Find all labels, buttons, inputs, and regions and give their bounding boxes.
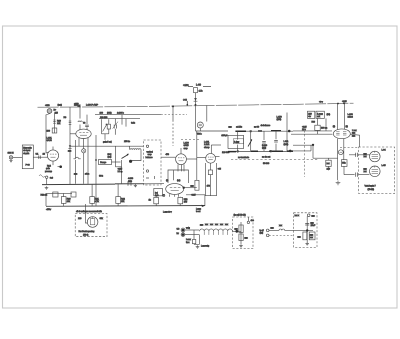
capacitor C12 pair ticks bbox=[128, 181, 131, 185]
wire V2 left pin drop bbox=[75, 140, 77, 184]
label F1 bbox=[54, 109, 57, 112]
wire V2 cathode pins bbox=[79, 138, 88, 184]
wire jack to attenuator bbox=[13, 156, 23, 158]
label bus right b bbox=[196, 210, 201, 213]
tap ring a bbox=[237, 151, 239, 153]
terminal T6.3b bbox=[182, 233, 185, 236]
svg-text:(cal): (cal) bbox=[108, 156, 112, 159]
svg-text:25uF: 25uF bbox=[311, 224, 316, 227]
switch contact b bbox=[146, 170, 148, 172]
svg-text:gain 5 adj: gain 5 adj bbox=[103, 141, 112, 144]
svg-text:220 pf: 220 pf bbox=[222, 134, 228, 137]
svg-text:Vert Ampls 7: Vert Ampls 7 bbox=[365, 185, 377, 188]
label R21v bbox=[95, 200, 100, 203]
svg-text:Range: Range bbox=[100, 161, 107, 164]
wire choke out bbox=[232, 230, 241, 232]
svg-text:all dc voltages measured with: all dc voltages measured with bbox=[76, 210, 103, 213]
wire V2 screen feed bbox=[79, 107, 81, 119]
svg-text:vertical: vertical bbox=[147, 151, 154, 154]
capacitor C95 bbox=[305, 223, 309, 225]
svg-text:L-101: L-101 bbox=[47, 137, 53, 140]
label box line2 bbox=[148, 153, 153, 156]
wire supply vertical bbox=[306, 216, 308, 243]
wire pot network bbox=[102, 119, 109, 140]
resistor R90 bbox=[341, 160, 347, 167]
label hump6 bbox=[225, 223, 229, 226]
wire V3 plate lead bbox=[180, 148, 182, 154]
V6 inner bbox=[199, 124, 202, 126]
svg-text:(x): (x) bbox=[346, 125, 349, 128]
dashed box heater filter bbox=[233, 217, 254, 249]
label crt caption1 bbox=[365, 185, 377, 188]
wire x173 drop dashed bbox=[172, 120, 174, 146]
label above gbus b bbox=[85, 173, 90, 176]
resistor R99 bbox=[309, 232, 315, 240]
wire section3 vertical bbox=[250, 131, 252, 151]
wire screen divider drop x70 bbox=[69, 107, 71, 148]
svg-text:select: select bbox=[348, 116, 354, 119]
wire CR2 to ground bbox=[69, 149, 71, 185]
label C12v2 bbox=[128, 180, 133, 183]
node top rail out bbox=[288, 130, 291, 133]
svg-text:Max volts: Max volts bbox=[23, 147, 32, 150]
wire attenuator to V1 grid bbox=[33, 156, 47, 158]
node bus junction x173 bbox=[172, 105, 174, 107]
label V8 pin r bbox=[346, 125, 349, 128]
label chain note bbox=[201, 245, 210, 248]
label R21 bbox=[95, 198, 100, 201]
wire x313 drop bbox=[312, 145, 314, 158]
svg-text:R18 2k: R18 2k bbox=[41, 193, 48, 196]
node x313 junction bbox=[312, 144, 314, 146]
svg-text:100 on: 100 on bbox=[321, 126, 328, 129]
resistor R98 bbox=[303, 232, 307, 240]
triode V5 (geometry) bbox=[87, 217, 98, 228]
label L011b bbox=[284, 143, 289, 146]
label above rail b bbox=[254, 125, 260, 128]
resistor R1 ticks bbox=[53, 120, 56, 123]
svg-text:at gain: at gain bbox=[23, 152, 30, 155]
label P2 bbox=[382, 164, 387, 167]
svg-text:P+G: P+G bbox=[26, 164, 31, 167]
wire section4 vertical bbox=[263, 131, 265, 151]
svg-text:2.2k/1: 2.2k/1 bbox=[204, 143, 210, 146]
label pot bbox=[108, 153, 113, 156]
svg-text:to all: to all bbox=[260, 229, 265, 232]
svg-text:L-104 P-AMP: L-104 P-AMP bbox=[86, 103, 99, 106]
wire V6 bottom pin bbox=[199, 128, 201, 131]
wire heater line a bbox=[185, 229, 199, 231]
wire V8 screen drop bbox=[343, 139, 345, 160]
label P1 left1 bbox=[364, 153, 368, 156]
label hump3 bbox=[210, 223, 214, 226]
wire dashed link top of crt box bbox=[340, 147, 358, 149]
wire to TP1 bbox=[58, 166, 60, 168]
inductor segments top rail bbox=[235, 130, 281, 133]
wire cathode return bbox=[46, 192, 72, 194]
label 6.3v b bbox=[177, 232, 180, 235]
label R82v bbox=[317, 112, 323, 115]
tap ring c bbox=[270, 150, 272, 152]
wire ring up bbox=[247, 217, 249, 221]
label y118 rail a bbox=[100, 116, 108, 119]
label below c71 bbox=[262, 144, 268, 147]
wire rail drops x122 x126 bbox=[122, 115, 126, 127]
node bus junction J2 bbox=[187, 104, 189, 106]
label INPUT bbox=[8, 152, 14, 155]
wire x96 drop upper bbox=[95, 135, 97, 160]
resistor R83 bbox=[315, 125, 320, 130]
neon lamp B1 (circled X) bbox=[82, 149, 86, 153]
label R10v bbox=[57, 122, 61, 125]
capacitor C91 bbox=[356, 173, 358, 177]
label box line3 bbox=[146, 156, 154, 159]
label delay1 bbox=[234, 140, 240, 143]
svg-text:(39k): (39k) bbox=[107, 112, 112, 115]
wire bus drop x207 bbox=[206, 105, 208, 121]
svg-text:L-130: L-130 bbox=[184, 142, 190, 145]
label R82w bbox=[317, 115, 321, 118]
label R51v bbox=[149, 199, 152, 202]
label T1 text bbox=[155, 192, 158, 195]
wire x173 drop solid bbox=[172, 106, 174, 120]
svg-text:(2.2): (2.2) bbox=[262, 147, 266, 150]
wire h1 right bbox=[269, 229, 279, 231]
capacitor C2 bbox=[39, 156, 41, 159]
label R96v bbox=[235, 227, 239, 230]
wire V8 cathode drop bbox=[337, 139, 339, 180]
capacitor C7 variable bbox=[113, 122, 118, 129]
wire dashed link bbox=[181, 139, 200, 141]
triode V6 (cf) bbox=[197, 122, 203, 128]
wire filter vertical bbox=[240, 222, 242, 244]
svg-text:L xxx dc v: L xxx dc v bbox=[163, 211, 173, 214]
arrowhead bus end bbox=[202, 205, 205, 207]
resistor R97 bbox=[239, 234, 243, 241]
label R45v bbox=[166, 153, 170, 156]
label above rail a bbox=[236, 126, 243, 129]
wire mid out to V8 bbox=[291, 133, 333, 135]
wire C90 link bbox=[349, 154, 370, 156]
node bottom rail out bbox=[289, 150, 292, 153]
wire bus drop to V6 net bbox=[195, 105, 197, 131]
label wdg bbox=[186, 227, 191, 230]
label V7 type bbox=[204, 143, 210, 146]
label below rail3 bbox=[263, 162, 270, 165]
label +100V net bbox=[183, 84, 189, 87]
label V5 right bbox=[100, 217, 104, 220]
capacitor C90 bbox=[356, 153, 358, 157]
svg-text:(xxx): (xxx) bbox=[58, 104, 63, 107]
dashed box CRT connector bbox=[359, 147, 395, 194]
label R20 bbox=[67, 198, 72, 201]
wire R20 leads bbox=[63, 193, 65, 206]
svg-text:4 100: 4 100 bbox=[128, 177, 134, 180]
dashed box geometry module bbox=[75, 214, 107, 237]
wire heater return bbox=[194, 235, 200, 245]
triode V7 (delay driver) bbox=[206, 153, 216, 163]
label R22v bbox=[121, 200, 125, 203]
label +225 tap bbox=[118, 168, 123, 171]
label V5 left bbox=[78, 217, 82, 220]
label R83t bbox=[312, 121, 316, 124]
wire node B+ stub bbox=[188, 86, 211, 88]
resistor R18 box bbox=[53, 192, 58, 197]
svg-text:L-xx wdg: L-xx wdg bbox=[201, 245, 210, 248]
label R81w bbox=[308, 115, 311, 118]
label R32 bbox=[131, 122, 136, 125]
terminal ring T6.3b bbox=[181, 233, 185, 237]
label cal bbox=[108, 156, 112, 159]
label C2v bbox=[36, 153, 40, 156]
wire L5 to switch bbox=[132, 150, 141, 161]
label box caption2 bbox=[83, 234, 89, 237]
dashed box decoupling supply bbox=[294, 213, 317, 248]
svg-text:(30): (30) bbox=[327, 113, 331, 116]
label hump4 bbox=[215, 223, 219, 226]
wire bus hook right bbox=[186, 195, 205, 206]
label s1 bbox=[312, 214, 316, 217]
squiggle cal mark bbox=[39, 175, 45, 177]
ground V8 cathode bbox=[336, 181, 341, 185]
svg-text:(x): (x) bbox=[333, 125, 336, 128]
wire box contacts c bbox=[146, 176, 155, 179]
label +350 bbox=[74, 102, 79, 105]
label L2v bbox=[83, 122, 86, 125]
heater choke L20 humps bbox=[200, 229, 233, 231]
terminal T6.3a bbox=[182, 229, 185, 232]
label R14 bbox=[47, 165, 52, 168]
wire V8 plate to crt box bbox=[350, 134, 359, 147]
svg-text:no dc out: no dc out bbox=[262, 156, 271, 159]
svg-text:Hor Back opening: Hor Back opening bbox=[79, 230, 96, 233]
label R52v bbox=[184, 201, 188, 204]
label near CR2 bbox=[68, 150, 72, 153]
label V1 type bbox=[47, 139, 53, 142]
output pentode V8 (L-160) bbox=[333, 129, 350, 139]
svg-text:dc balance: dc balance bbox=[261, 124, 271, 127]
label -8.6V bbox=[50, 176, 54, 179]
label -150V bbox=[46, 208, 52, 211]
wire tick at +dc bbox=[186, 101, 188, 105]
label sec1 bbox=[222, 134, 228, 137]
label R62v bbox=[207, 185, 211, 188]
wire section2 vertical bbox=[237, 131, 239, 151]
label term b bbox=[260, 232, 264, 235]
wire x196.8 drop bbox=[196, 131, 198, 180]
label R97v bbox=[245, 236, 249, 239]
switch arm SW1 bbox=[122, 154, 129, 159]
ground heater bbox=[196, 245, 200, 248]
label adj bbox=[78, 104, 81, 107]
diode CR40 bbox=[194, 98, 198, 101]
label R22 bbox=[121, 198, 126, 201]
label box line1 bbox=[147, 151, 154, 154]
svg-text:no terminate: no terminate bbox=[238, 156, 250, 159]
resistor R11 bbox=[52, 128, 57, 133]
capacitor C18 box bbox=[71, 192, 76, 197]
svg-text:56 640: 56 640 bbox=[263, 162, 270, 165]
capacitor C71 bbox=[236, 141, 240, 142]
svg-text:to crt: to crt bbox=[196, 210, 201, 213]
P2 inner bars bbox=[372, 166, 378, 173]
wire fuse to grid drop bbox=[46, 114, 50, 116]
wire R40 to bus bbox=[195, 93, 197, 105]
label preamp bbox=[45, 170, 53, 173]
label V7 role bbox=[204, 146, 210, 149]
wire drop into geometry box bbox=[86, 204, 88, 223]
wire delay top rail bbox=[244, 130, 293, 132]
tick stubs between humps bbox=[204, 231, 228, 235]
ground at input jack bbox=[9, 159, 12, 162]
ground filter bbox=[239, 244, 243, 247]
label R11v bbox=[47, 130, 51, 133]
wire V1 plate feed bbox=[54, 114, 56, 134]
label V8 right1 bbox=[352, 129, 358, 132]
label hump1 bbox=[200, 223, 204, 226]
label V8 pin bbox=[327, 113, 331, 116]
svg-text:htr: htr bbox=[177, 232, 180, 235]
terminal out ring bbox=[247, 221, 249, 223]
label above rail d bbox=[277, 118, 282, 121]
label heater b bbox=[186, 241, 190, 244]
svg-text:5 600: 5 600 bbox=[262, 144, 268, 147]
label range text bbox=[100, 161, 107, 164]
svg-text:(xx): (xx) bbox=[177, 179, 181, 182]
svg-text:(x): (x) bbox=[166, 179, 169, 182]
potentiometer arrow bbox=[103, 124, 108, 132]
label P1 bbox=[382, 149, 387, 152]
label V7 name bbox=[204, 141, 210, 144]
wire C7 leads bbox=[114, 119, 116, 135]
label P2 left2 bbox=[364, 170, 368, 173]
svg-text:clamp: clamp bbox=[204, 146, 210, 149]
switch contact a bbox=[146, 145, 148, 147]
wire delay section1 sides bbox=[228, 135, 244, 148]
label F1b bbox=[55, 111, 59, 114]
node bus x338 bbox=[337, 103, 339, 105]
label hump2 bbox=[205, 223, 209, 226]
wire R18 to bus bbox=[45, 193, 47, 206]
bias box T1 bbox=[154, 189, 163, 196]
node supply junction bbox=[306, 229, 308, 231]
ground bus bbox=[42, 183, 115, 186]
wire V1 grid drop bbox=[46, 115, 49, 153]
wire R51 leads bbox=[155, 196, 157, 206]
label R10 bbox=[57, 120, 62, 123]
wire R83 leads bbox=[317, 118, 319, 134]
svg-text:L-160: L-160 bbox=[348, 113, 354, 116]
wire to V7 grid bbox=[197, 157, 206, 159]
wire mid ground link y183.6 bbox=[115, 183, 144, 185]
resistor R52 bbox=[178, 197, 183, 203]
wire V2 plate feed bbox=[86, 115, 88, 124]
svg-text:(250): (250) bbox=[277, 118, 282, 121]
svg-text:(7): (7) bbox=[163, 194, 166, 197]
svg-text:L-131: L-131 bbox=[204, 141, 210, 144]
wire dashed enclosure edge bbox=[304, 131, 306, 177]
wire +225V top bus bbox=[38, 103, 354, 107]
label below bus c bbox=[163, 211, 173, 214]
resistor R20 bbox=[61, 197, 66, 204]
svg-text:220 100: 220 100 bbox=[100, 116, 108, 119]
svg-text:balance: balance bbox=[146, 156, 154, 159]
resistor R33 bbox=[107, 124, 110, 129]
svg-text:(75-6): (75-6) bbox=[83, 234, 89, 237]
resistor R51 bbox=[154, 197, 159, 203]
label L011 bbox=[284, 140, 290, 143]
label V8 right3 bbox=[352, 134, 356, 137]
V5 inner grid bbox=[90, 217, 94, 225]
label A1 line3 bbox=[23, 152, 30, 155]
double triode V4 (output cf) bbox=[166, 184, 184, 195]
ground below bus bbox=[45, 186, 49, 189]
svg-text:1 meg: 1 meg bbox=[317, 112, 323, 115]
wire ground bus extension bbox=[115, 183, 164, 185]
label hump5 bbox=[220, 223, 224, 226]
wire heater line b bbox=[185, 234, 199, 236]
wire V4 pin mid bbox=[173, 170, 175, 180]
wire R22 leads bbox=[117, 184, 119, 206]
socket ring P2 lower bbox=[370, 166, 381, 177]
attenuator block A1 bbox=[22, 145, 33, 169]
label R52 bbox=[184, 198, 189, 201]
label above gbus a bbox=[74, 173, 78, 176]
ground supply bbox=[305, 242, 309, 245]
label y114 rail b bbox=[107, 112, 112, 115]
label ks label bbox=[234, 214, 246, 217]
wire C5 lead bbox=[86, 127, 88, 129]
label y114 rail c bbox=[117, 112, 124, 115]
wire V3 cathode pins bbox=[178, 164, 184, 171]
label R20v bbox=[67, 200, 71, 203]
resistor R53 bbox=[195, 180, 199, 190]
wire B1 leads bbox=[83, 146, 85, 184]
label dec bbox=[251, 219, 255, 222]
label below sec1 bbox=[222, 151, 230, 154]
wire x96 drop lower bbox=[95, 160, 97, 206]
wire box to V3 grid bbox=[161, 156, 176, 158]
wire R90 down bbox=[343, 166, 345, 174]
meter symbol M1 circled bbox=[338, 150, 343, 155]
capacitor C72 bbox=[262, 142, 266, 143]
wire R82 drop bbox=[325, 118, 327, 130]
label R83v bbox=[321, 126, 328, 129]
label gain adj bbox=[46, 167, 51, 170]
label V3 type bbox=[184, 144, 190, 147]
label C95a bbox=[311, 221, 315, 224]
label V8 name bbox=[348, 113, 354, 116]
wire x287 drop bbox=[286, 113, 288, 132]
inductor L21 bbox=[279, 229, 285, 230]
label R91b bbox=[327, 168, 331, 171]
label 6.3v a bbox=[177, 227, 181, 230]
wire V7 plate elbow bbox=[211, 144, 221, 146]
wire R21 leads bbox=[91, 184, 93, 206]
label R98v bbox=[298, 236, 302, 239]
wire C91 link bbox=[358, 174, 369, 176]
wire V7 plate up bbox=[210, 145, 212, 153]
wire coil drop bbox=[129, 146, 131, 149]
node x96 junction bbox=[95, 159, 97, 161]
label V3 role bbox=[184, 147, 189, 150]
label pin b bbox=[177, 179, 181, 182]
svg-text:(htr): (htr) bbox=[260, 232, 264, 235]
wire x194 drop bbox=[193, 230, 195, 239]
node x121.6 junction bbox=[121, 171, 123, 173]
wire grid rail y118.6 bbox=[99, 118, 140, 120]
svg-text:(75-15): (75-15) bbox=[368, 188, 375, 191]
